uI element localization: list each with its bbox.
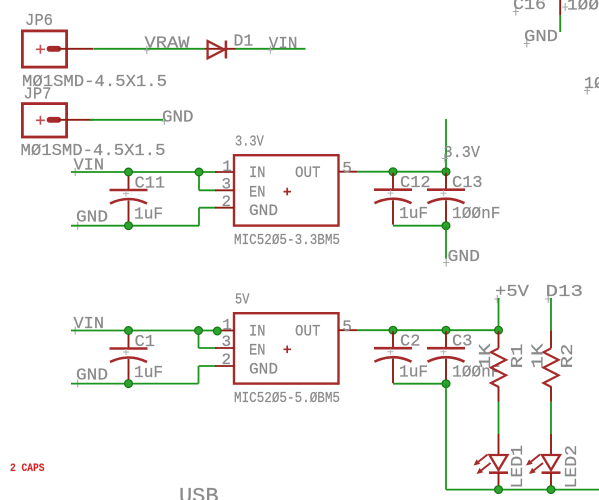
wire GND to pin2 horizontal <box>199 207 217 209</box>
svg-text:1Ø: 1Ø <box>584 75 599 94</box>
label GND origin cross <box>443 259 449 267</box>
LED2 cathode lead <box>550 473 552 490</box>
connector JP6 box <box>22 31 66 67</box>
wire GND bottom rail <box>446 489 599 491</box>
wire VIN rail 5V section <box>71 330 219 332</box>
connector JP7 pad <box>47 117 61 123</box>
svg-text:1: 1 <box>222 158 232 176</box>
wire R2 to LED2 <box>550 402 552 435</box>
wire GND between C2 and C3 <box>393 383 446 385</box>
capacitor C11 top plate <box>110 189 148 192</box>
label 100 origin cross <box>562 3 568 11</box>
wire regulator output 3.3V <box>357 171 446 173</box>
capacitor C3 bottom plate <box>428 357 465 362</box>
label GND origin cross <box>75 380 81 388</box>
pin stub 3 (EN) <box>215 347 234 349</box>
svg-text:R1: R1 <box>509 344 528 369</box>
pin stub 2 (GND) <box>215 365 234 367</box>
svg-text:1uF: 1uF <box>399 205 428 224</box>
junction VIN at C1 <box>125 327 133 335</box>
label GND origin cross <box>161 117 167 125</box>
wire EN branch horizontal <box>199 347 217 349</box>
svg-text:IN: IN <box>249 164 266 182</box>
resistor R2 top lead <box>550 331 552 349</box>
symbol plus mark <box>284 346 292 354</box>
LED2 triangle and cathode bar <box>542 455 560 470</box>
svg-text:OUT: OUT <box>295 323 321 341</box>
svg-text:3.3V: 3.3V <box>444 144 481 163</box>
label +5V origin cross <box>494 295 500 303</box>
pin stub 1 (IN) <box>215 171 234 173</box>
svg-text:VIN: VIN <box>269 35 298 54</box>
capacitor C13 top lead <box>445 173 447 189</box>
capacitor C3 top lead <box>445 331 447 347</box>
capacitor C3 bottom lead <box>445 359 447 384</box>
svg-text:GND: GND <box>76 208 108 227</box>
label 10 origin cross <box>584 87 590 95</box>
junction output at C2 <box>389 326 397 334</box>
svg-text:+5V: +5V <box>495 283 530 302</box>
label VIN origin cross <box>267 46 273 54</box>
wire GND drop below C13 <box>445 226 447 259</box>
LED1 emission arrow 1 <box>478 455 487 462</box>
pin stub 5 (OUT) <box>339 329 358 331</box>
svg-text:IN: IN <box>249 323 266 341</box>
capacitor C2 top lead <box>392 331 394 347</box>
connector JP7 box <box>22 104 66 137</box>
svg-text:1ØØ: 1ØØ <box>567 0 599 15</box>
capacitor C11 top lead <box>128 173 130 189</box>
resistor R1 zigzag <box>491 348 506 387</box>
junction GND at C3 <box>442 380 450 388</box>
svg-text:2: 2 <box>222 351 232 369</box>
svg-text:GND: GND <box>448 248 481 267</box>
svg-text:C2: C2 <box>400 333 420 352</box>
pin stub 3 (EN) <box>215 189 234 191</box>
capacitor C13 bottom lead <box>445 200 447 225</box>
svg-text:1K: 1K <box>477 343 496 369</box>
diode D1 cathode bar <box>225 41 228 59</box>
pin stub 2 (GND) <box>215 207 234 209</box>
svg-text:1ØØnF: 1ØØnF <box>452 205 501 224</box>
capacitor C12 top plate <box>374 188 412 191</box>
svg-text:C1: C1 <box>135 333 155 352</box>
connector JP6 pad <box>47 46 61 52</box>
svg-text:EN: EN <box>249 341 266 359</box>
label VRAW origin cross <box>144 46 150 54</box>
wire GND between C12 and C13 <box>393 225 446 227</box>
wire VIN net top <box>236 48 306 50</box>
svg-text:1uF: 1uF <box>134 364 163 383</box>
junction output at C13 <box>442 168 450 176</box>
svg-text:R2: R2 <box>559 344 578 369</box>
svg-text:1uF: 1uF <box>399 364 428 383</box>
svg-text:MIC52Ø5-5.ØBM5: MIC52Ø5-5.ØBM5 <box>234 390 340 407</box>
capacitor C13 top plate <box>427 188 465 191</box>
junction GND at C13 <box>442 222 450 230</box>
svg-text:2 CAPS: 2 CAPS <box>10 463 45 475</box>
connector JP6 pin 1 <box>58 48 93 50</box>
capacitor C11 bottom plate <box>110 199 147 204</box>
junction GND at C1 <box>125 380 133 388</box>
wire VRAW net <box>94 48 205 50</box>
junction VIN branch <box>195 168 203 176</box>
capacitor C11 plus mark <box>123 191 129 197</box>
pin stub 5 (OUT) <box>339 171 358 173</box>
wire EN branch horizontal <box>199 189 217 191</box>
svg-text:VRAW: VRAW <box>145 34 191 53</box>
svg-text:5: 5 <box>342 318 352 336</box>
wire 3.3V net riser <box>445 119 447 172</box>
wire GND rail 5V section <box>71 383 199 385</box>
capacitor C1 top lead <box>128 332 130 348</box>
pin stub 1 (IN) <box>215 330 234 332</box>
svg-text:1K: 1K <box>530 343 549 369</box>
capacitor C1 bottom plate <box>110 358 147 363</box>
svg-text:C13: C13 <box>452 174 483 193</box>
label VIN origin cross <box>72 327 78 335</box>
label D13 origin cross <box>545 295 551 303</box>
wire GND net from JP7 <box>90 119 163 121</box>
capacitor C2 bottom lead <box>392 359 394 384</box>
wire EN branch vertical <box>198 172 200 190</box>
svg-text:3.3V: 3.3V <box>235 133 264 150</box>
label C16 origin cross <box>513 8 519 16</box>
connector JP7 plus mark <box>36 116 45 125</box>
svg-text:2: 2 <box>222 193 232 211</box>
capacitor C1 plus mark <box>123 349 129 355</box>
svg-text:USB: USB <box>179 484 219 500</box>
svg-text:1: 1 <box>222 316 232 334</box>
label GND origin cross <box>524 40 530 48</box>
LED1 triangle and cathode bar <box>490 455 508 470</box>
junction output at C3 <box>442 326 450 334</box>
wire VIN rail 3.3V section <box>71 171 217 173</box>
svg-text:LED2: LED2 <box>563 445 582 489</box>
voltage regulator box 5V <box>234 313 339 383</box>
svg-text:OUT: OUT <box>295 164 321 182</box>
LED1 cathode lead <box>498 473 500 490</box>
resistor R1 bottom lead <box>498 386 500 401</box>
capacitor C13 bottom plate <box>428 199 465 204</box>
capacitor C1 top plate <box>110 347 148 350</box>
wire GND to pin2 vertical <box>198 208 200 226</box>
junction VIN at C11 <box>125 168 133 176</box>
resistor R1 top lead <box>498 331 500 348</box>
wire R1 to LED1 <box>498 402 500 435</box>
junction GND at C11 <box>125 222 133 230</box>
capacitor C11 bottom lead <box>128 201 130 226</box>
capacitor C2 plus mark <box>388 349 394 355</box>
svg-text:C16: C16 <box>513 0 546 15</box>
capacitor C12 plus mark <box>388 190 394 196</box>
wire GND to pin2 vertical <box>198 366 200 384</box>
svg-text:C12: C12 <box>400 174 431 193</box>
svg-text:MIC52Ø5-3.3BM5: MIC52Ø5-3.3BM5 <box>234 232 340 249</box>
capacitor C2 bottom plate <box>375 357 412 362</box>
svg-text:GND: GND <box>524 28 558 47</box>
svg-text:5V: 5V <box>235 291 249 308</box>
capacitor C12 bottom lead <box>392 200 394 225</box>
label GND origin cross <box>75 222 81 230</box>
svg-text:5: 5 <box>342 160 352 178</box>
svg-text:3: 3 <box>222 176 232 194</box>
svg-text:C11: C11 <box>135 175 166 194</box>
capacitor C2 top plate <box>374 347 412 350</box>
junction +5V at R1 <box>495 326 503 334</box>
capacitor C3 top plate <box>427 347 465 350</box>
symbol plus mark <box>284 188 292 196</box>
wire GND drop from C3 <box>445 384 447 490</box>
resistor R2 bottom lead <box>550 386 552 401</box>
junction at pin 1 <box>213 327 221 335</box>
capacitor C12 bottom plate <box>375 199 412 204</box>
label VIN origin cross <box>72 168 78 176</box>
LED2 emission arrow 1 <box>531 455 540 462</box>
label 3.3V origin cross <box>442 155 448 163</box>
junction LED1 cathode <box>495 486 503 494</box>
svg-text:3: 3 <box>222 333 232 351</box>
LED1 anode lead <box>498 434 500 455</box>
junction output at C12 <box>389 168 397 176</box>
svg-text:GND: GND <box>162 108 194 127</box>
voltage regulator box 3.3V <box>234 155 339 225</box>
LED2 anode lead <box>550 434 552 455</box>
junction VIN branch <box>195 327 203 335</box>
capacitor C3 plus mark <box>441 349 447 355</box>
svg-text:GND: GND <box>76 366 108 385</box>
diode D1 anode lead <box>205 48 236 50</box>
wire EN branch vertical <box>198 331 200 349</box>
capacitor C12 top lead <box>392 173 394 189</box>
LED2 emission arrow 2 <box>534 463 543 470</box>
junction LED2 cathode <box>547 486 555 494</box>
wire GND from C16 <box>559 15 561 32</box>
svg-text:LED1: LED1 <box>509 445 528 489</box>
wire GND to pin2 horizontal <box>199 365 217 367</box>
svg-text:C3: C3 <box>452 333 472 352</box>
capacitor C16 lead stub <box>559 0 561 15</box>
svg-text:EN: EN <box>249 184 266 202</box>
wire +5V riser <box>498 298 500 330</box>
capacitor C13 plus mark <box>441 190 447 196</box>
diode D1 triangle <box>208 41 225 58</box>
svg-text:JP6: JP6 <box>25 12 53 31</box>
svg-text:GND: GND <box>249 202 278 220</box>
connector JP6 plus mark <box>36 45 45 54</box>
wire regulator output 5V <box>357 329 499 331</box>
wire GND rail 3.3V section <box>71 225 199 227</box>
svg-text:GND: GND <box>249 361 278 379</box>
capacitor C1 bottom lead <box>128 359 130 384</box>
resistor R2 zigzag <box>544 348 559 387</box>
svg-text:1uF: 1uF <box>134 206 163 225</box>
wire D13 net riser <box>550 298 552 331</box>
connector JP7 pin 1 <box>58 119 93 121</box>
LED1 emission arrow 2 <box>481 463 490 470</box>
svg-text:JP7: JP7 <box>24 85 52 104</box>
